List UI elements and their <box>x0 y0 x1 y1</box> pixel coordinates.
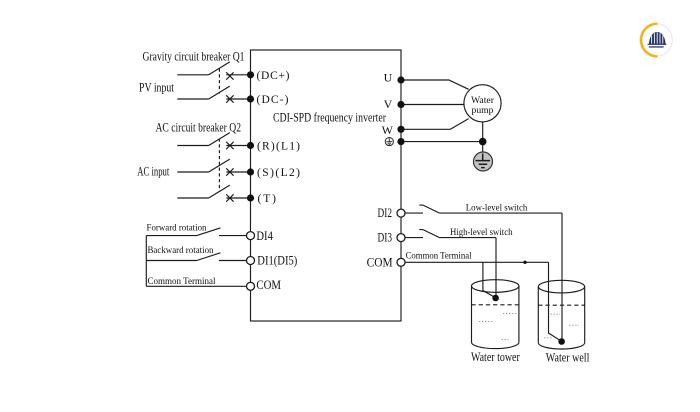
wire high-level down to tower float <box>495 238 497 297</box>
svg-text:(DC-): (DC-) <box>257 94 289 106</box>
inverter box U0 <box>251 50 402 321</box>
wire R breaker pole <box>177 133 250 146</box>
svg-text:Forward rotation: Forward rotation <box>147 223 207 234</box>
svg-text:(T): (T) <box>258 193 277 205</box>
wire V to pump <box>401 104 464 106</box>
node PE <box>397 138 404 145</box>
node DC+ <box>247 71 254 78</box>
junction common line <box>523 261 526 264</box>
PE terminal symbol <box>385 138 393 146</box>
water marks well <box>544 314 579 338</box>
breaker Q1 linkage dashed <box>218 69 220 94</box>
svg-text:Water: Water <box>471 96 495 106</box>
node R <box>247 142 254 149</box>
breaker contact X S <box>226 168 233 175</box>
svg-text:Water tower: Water tower <box>471 350 520 364</box>
switch DI2 low-level <box>405 205 563 213</box>
wire common terminal left <box>146 285 246 287</box>
svg-text:DI3: DI3 <box>378 231 393 245</box>
svg-text:(S)(L2): (S)(L2) <box>257 167 300 179</box>
terminal COM left <box>247 282 255 290</box>
wire T breaker pole <box>177 185 250 198</box>
node W <box>397 126 404 133</box>
terminal DI2 <box>397 209 405 217</box>
node U <box>397 76 404 83</box>
switch DI3 high-level <box>405 230 497 238</box>
switch forward rotation <box>146 228 246 236</box>
breaker contact X T <box>226 194 233 201</box>
svg-text:U: U <box>384 71 393 85</box>
wire common branch to tower float <box>483 262 496 298</box>
tank water tower <box>472 280 519 349</box>
float switch well <box>558 338 565 345</box>
wire S breaker pole <box>177 159 250 172</box>
svg-text:Gravity circuit breaker Q1: Gravity circuit breaker Q1 <box>143 49 245 63</box>
earth ground symbol <box>474 152 493 171</box>
svg-text:High-level switch: High-level switch <box>450 227 513 238</box>
svg-text:DI1(DI5): DI1(DI5) <box>257 254 297 268</box>
wire U to pump <box>401 80 469 89</box>
svg-text:Low-level switch: Low-level switch <box>466 202 528 213</box>
wire left control bus <box>145 236 147 287</box>
breaker contact X R <box>226 142 233 149</box>
wire DC+ breaker pole <box>177 62 250 75</box>
wire PE to earth <box>401 141 483 143</box>
wire low-level down to well float <box>561 213 563 340</box>
node V <box>397 101 404 108</box>
node DC- <box>247 95 254 102</box>
terminal COM right <box>397 258 405 266</box>
svg-text:V: V <box>384 97 393 111</box>
terminal DI4 <box>247 232 255 240</box>
svg-text:AC input: AC input <box>137 164 169 178</box>
terminal DI1(DI5) <box>247 257 255 265</box>
svg-text:Water well: Water well <box>546 351 590 365</box>
svg-text:pump: pump <box>472 106 494 116</box>
wire pump to earth junction <box>482 122 484 153</box>
svg-text:DI2: DI2 <box>378 206 393 220</box>
switch backward rotation <box>146 253 246 261</box>
svg-text:Backward rotation: Backward rotation <box>148 245 214 256</box>
node S <box>247 168 254 175</box>
svg-text:PV input: PV input <box>139 81 174 95</box>
wire DC- breaker pole <box>177 86 250 99</box>
junction pump earth <box>479 138 487 146</box>
wire common terminal right <box>405 261 549 263</box>
svg-text:DI4: DI4 <box>256 229 273 243</box>
wire W to pump <box>401 119 469 130</box>
motor water pump M1 <box>464 85 501 122</box>
breaker contact X DC+ <box>226 72 233 79</box>
tank water well <box>538 280 584 349</box>
wire common to well float <box>549 262 562 341</box>
logo company badge <box>640 24 673 57</box>
water marks tower <box>479 314 517 340</box>
svg-text:COM: COM <box>367 255 393 269</box>
svg-text:CDI-SPD frequency inverter: CDI-SPD frequency inverter <box>273 111 387 125</box>
float switch tower <box>492 295 499 302</box>
breaker Q2 linkage dashed <box>218 139 220 193</box>
svg-text:(DC+): (DC+) <box>257 70 290 82</box>
svg-text:(R)(L1): (R)(L1) <box>257 141 300 153</box>
svg-text:W: W <box>382 123 394 137</box>
node T <box>247 194 254 201</box>
breaker contact X DC- <box>226 95 233 102</box>
svg-text:COM: COM <box>256 278 281 292</box>
svg-text:Common Terminal: Common Terminal <box>148 276 216 287</box>
svg-text:AC circuit breaker Q2: AC circuit breaker Q2 <box>156 120 242 134</box>
svg-text:Common Terminal: Common Terminal <box>406 251 472 262</box>
terminal DI3 <box>397 234 405 242</box>
